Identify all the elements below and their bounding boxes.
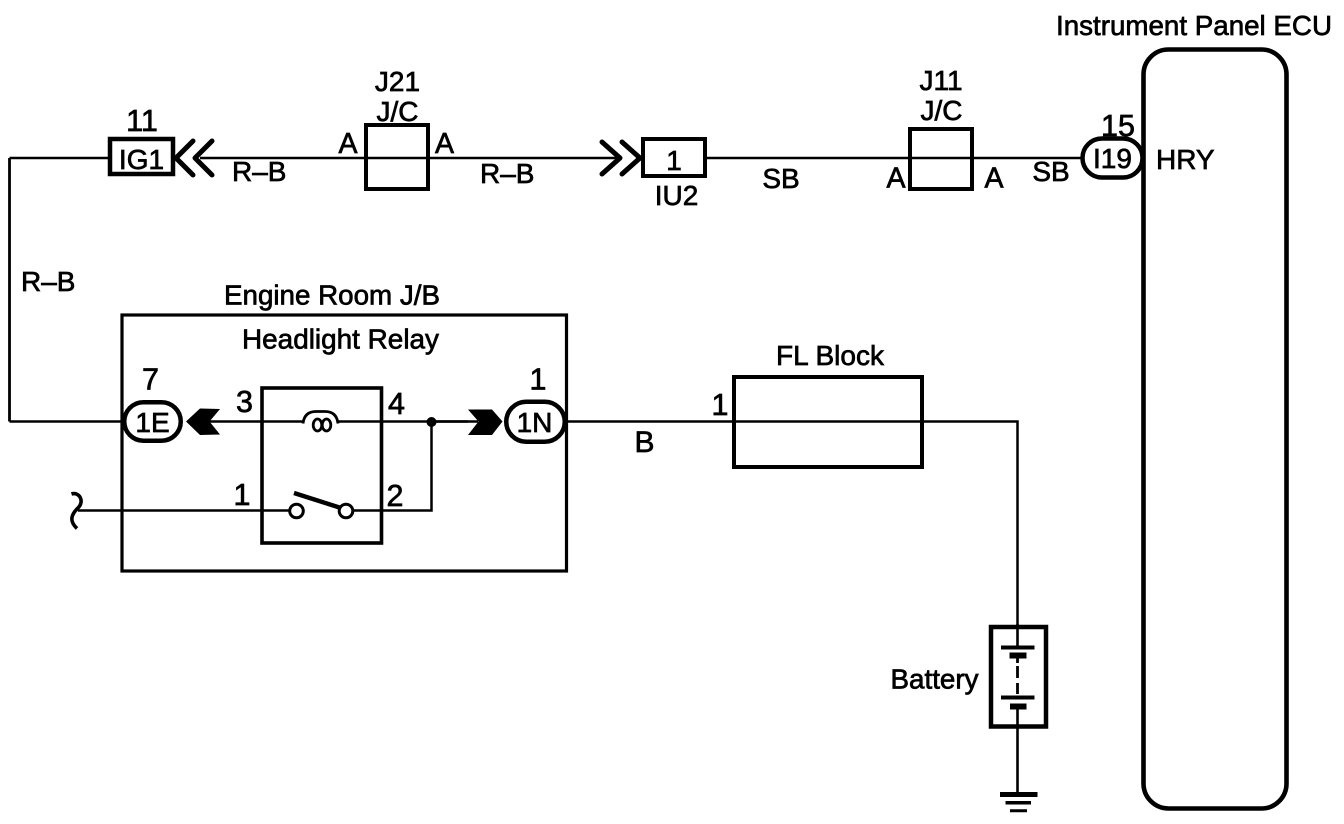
svg-text:B: B [634,426,654,459]
label J/C of J11 [921,95,963,126]
svg-text:FL Block: FL Block [776,340,885,371]
headlight relay K1 inner box [262,388,382,543]
relay switch contact right [339,504,353,518]
pin A left of J11 [886,163,905,195]
svg-text:J/C: J/C [377,96,419,127]
ground symbol [1000,795,1038,811]
connector 1N [506,402,565,442]
wire battery to ground [1016,709,1019,792]
svg-text:J/C: J/C [921,95,963,126]
ECU U1 Instrument Panel ECU body [1144,50,1287,809]
junction dot node [427,417,437,427]
black arrow left at 1E [186,409,220,436]
wire IU2 to I19 through J11 [707,157,1082,160]
wire label R-B (middle) [480,158,534,189]
svg-text:A: A [886,163,905,195]
pin 1 label at switch [234,478,251,512]
battery cell 1 short plate [1010,653,1027,659]
battery internal top lead [1016,624,1019,646]
pin A right of J21 [435,128,454,160]
svg-text:SB: SB [762,163,799,194]
wire label R-B (top left) [232,156,286,187]
relay coil L [303,412,338,432]
Battery label [891,664,979,695]
svg-text:4: 4 [388,387,405,421]
connector arrows << at IG1 [176,141,212,175]
battery cell 2 long plate [1001,696,1035,700]
junction connector J21 box [366,125,428,189]
svg-text:1: 1 [712,388,729,422]
pin 1 label at FL Block [712,388,729,422]
wire 1N to FL Block to corner [565,422,1018,628]
wire label B [634,426,654,459]
svg-text:1E: 1E [135,407,169,438]
battery BT1 box [991,627,1046,727]
Engine Room J/B box [122,315,567,571]
pin 2 label [387,479,404,513]
wire label R-B (left vertical) [21,266,75,297]
label J11 [919,65,962,96]
connector 1E [124,402,181,441]
svg-text:7: 7 [142,363,159,397]
pin A right of J11 [984,163,1003,195]
svg-text:J11: J11 [919,65,962,96]
battery cell 1 stub [1016,658,1019,663]
pin 15 label [1101,109,1135,143]
svg-text:I19: I19 [1093,143,1132,174]
svg-text:1N: 1N [517,407,553,438]
fuse FL Block box [734,377,922,467]
battery cell 1 long plate [1001,646,1035,650]
svg-text:1: 1 [666,145,682,176]
pin 3 label [236,385,253,419]
svg-text:R–B: R–B [480,158,534,189]
svg-text:A: A [435,128,454,160]
svg-text:Battery: Battery [891,664,979,695]
svg-text:IG1: IG1 [119,144,164,175]
svg-text:11: 11 [126,104,158,138]
svg-text:A: A [984,163,1003,195]
pin 4 label [388,387,405,421]
label J/C of J21 [377,96,419,127]
svg-text:R–B: R–B [232,156,286,187]
Instrument Panel ECU label [1056,10,1332,41]
svg-text:J21: J21 [375,66,420,97]
wire coil to junction and arrow [338,420,478,423]
svg-text:Engine Room J/B: Engine Room J/B [224,280,440,311]
wire lower-left horizontal into 1E [10,420,125,423]
wire left vertical R-B run [8,158,11,422]
wire top-left horizontal to IG1 [10,157,109,160]
Engine Room J/B label [224,280,440,311]
wire switch to junction (right then up) [353,422,468,511]
wire 1E to relay coil [210,420,304,423]
svg-text:1: 1 [234,478,251,512]
svg-text:IU2: IU2 [655,180,699,211]
FL Block label [776,340,885,371]
svg-text:Headlight Relay: Headlight Relay [242,324,439,355]
connector I19 [1083,139,1143,178]
svg-text:HRY: HRY [1156,144,1215,175]
connector IU2 pin 1 box [643,139,705,176]
pin 7 label [142,363,159,397]
wire label SB (left) [762,163,799,194]
pin 11 label [126,104,158,138]
svg-text:SB: SB [1032,156,1069,187]
connector arrows >> at IU2 [602,142,640,174]
relay switch contact left [290,504,304,518]
black arrow right at 1N [468,410,503,436]
wire label SB (right) [1032,156,1069,187]
svg-text:3: 3 [236,385,253,419]
battery dashed link [1016,666,1019,694]
svg-text:2: 2 [387,479,404,513]
pin A left of J21 [338,128,357,160]
wire switch feed from left [78,509,290,512]
label IU2 [655,180,699,211]
battery cell 2 short plate [1010,704,1027,710]
svg-text:A: A [338,128,357,160]
svg-text:Instrument Panel ECU: Instrument Panel ECU [1056,10,1332,41]
Headlight Relay label [242,324,439,355]
pin 1 label above 1N [530,363,547,397]
wire from arrows to J21 and through to >> [200,157,619,160]
label J21 [375,66,420,97]
relay switch lever [294,493,341,508]
svg-text:R–B: R–B [21,266,75,297]
junction connector J11 box [910,129,972,189]
connector IG1 [110,139,173,175]
node HRY [1156,144,1215,175]
svg-text:1: 1 [530,363,547,397]
wire break squiggle [72,494,82,529]
